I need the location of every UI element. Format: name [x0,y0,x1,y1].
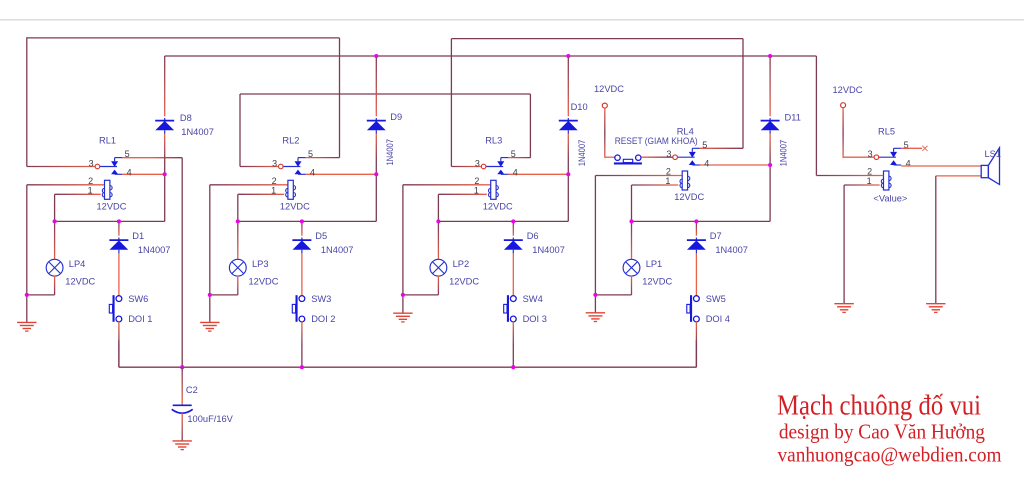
svg-text:4: 4 [906,158,911,168]
svg-text:LP4: LP4 [69,259,86,269]
svg-text:D1: D1 [132,231,144,241]
svg-text:D5: D5 [315,231,327,241]
svg-text:LP3: LP3 [252,259,269,269]
svg-text:4: 4 [704,158,709,168]
svg-text:RL5: RL5 [878,126,895,136]
svg-text:12VDC: 12VDC [674,192,704,202]
svg-text:12VDC: 12VDC [449,277,479,287]
svg-text:SW4: SW4 [523,294,543,304]
svg-text:2: 2 [88,176,93,186]
svg-text:DOI 3: DOI 3 [523,314,547,324]
svg-text:D8: D8 [180,113,192,123]
svg-text:DOI 1: DOI 1 [128,314,152,324]
svg-text:1N4007: 1N4007 [577,140,587,167]
svg-text:1: 1 [665,176,670,186]
svg-text:12VDC: 12VDC [97,202,127,212]
svg-text:1N4007: 1N4007 [385,139,395,166]
svg-text:12VDC: 12VDC [642,277,672,287]
svg-text:LP2: LP2 [453,259,470,269]
svg-text:5: 5 [125,149,130,159]
svg-text:RL1: RL1 [99,136,116,146]
svg-text:5: 5 [308,149,313,159]
svg-text:12VDC: 12VDC [833,85,863,95]
svg-text:LP1: LP1 [646,259,663,269]
svg-text:D10: D10 [571,102,588,112]
svg-text:1N4007: 1N4007 [778,140,788,167]
svg-text:RESET (GIAM KHOA): RESET (GIAM KHOA) [615,136,698,146]
svg-text:SW6: SW6 [128,294,148,304]
svg-text:12VDC: 12VDC [249,277,279,287]
svg-text:4: 4 [127,168,132,178]
svg-text:design by Cao Văn Hưởng: design by Cao Văn Hưởng [779,420,985,444]
svg-text:RL2: RL2 [282,136,299,146]
svg-text:vanhuongcao@webdien.com: vanhuongcao@webdien.com [778,443,1002,467]
svg-text:5: 5 [702,140,707,150]
svg-text:1N4007: 1N4007 [532,245,565,255]
svg-text:12VDC: 12VDC [280,202,310,212]
svg-text:D9: D9 [390,112,402,122]
svg-text:DOI 2: DOI 2 [311,314,335,324]
svg-text:LS1: LS1 [985,149,1002,159]
svg-text:Mạch chuông đố vui: Mạch chuông đố vui [777,391,981,422]
svg-text:1N4007: 1N4007 [181,127,214,137]
svg-text:DOI 4: DOI 4 [706,314,730,324]
svg-text:3: 3 [272,158,277,168]
svg-text:SW5: SW5 [706,294,726,304]
svg-text:1N4007: 1N4007 [138,245,171,255]
svg-text:4: 4 [310,168,315,178]
svg-text:D7: D7 [710,231,722,241]
svg-text:2: 2 [272,176,277,186]
svg-text:5: 5 [511,149,516,159]
svg-text:100uF/16V: 100uF/16V [187,414,233,424]
svg-text:1: 1 [474,185,479,195]
svg-text:2: 2 [666,167,671,177]
svg-text:SW3: SW3 [311,294,331,304]
svg-text:1: 1 [88,185,93,195]
svg-text:12VDC: 12VDC [483,202,513,212]
svg-text:C2: C2 [186,385,198,395]
svg-text:4: 4 [513,168,518,178]
svg-text:D6: D6 [527,231,539,241]
svg-text:<Value>: <Value> [873,194,907,204]
svg-text:RL4: RL4 [677,126,694,136]
svg-text:1: 1 [271,185,276,195]
svg-text:RL3: RL3 [485,136,502,146]
svg-text:1N4007: 1N4007 [715,245,748,255]
svg-text:12VDC: 12VDC [65,277,95,287]
svg-text:12VDC: 12VDC [594,84,624,94]
svg-text:D11: D11 [785,112,801,122]
svg-text:3: 3 [475,158,480,168]
svg-text:3: 3 [868,149,873,159]
svg-text:1N4007: 1N4007 [321,245,354,255]
svg-text:2: 2 [474,176,479,186]
svg-text:3: 3 [89,158,94,168]
